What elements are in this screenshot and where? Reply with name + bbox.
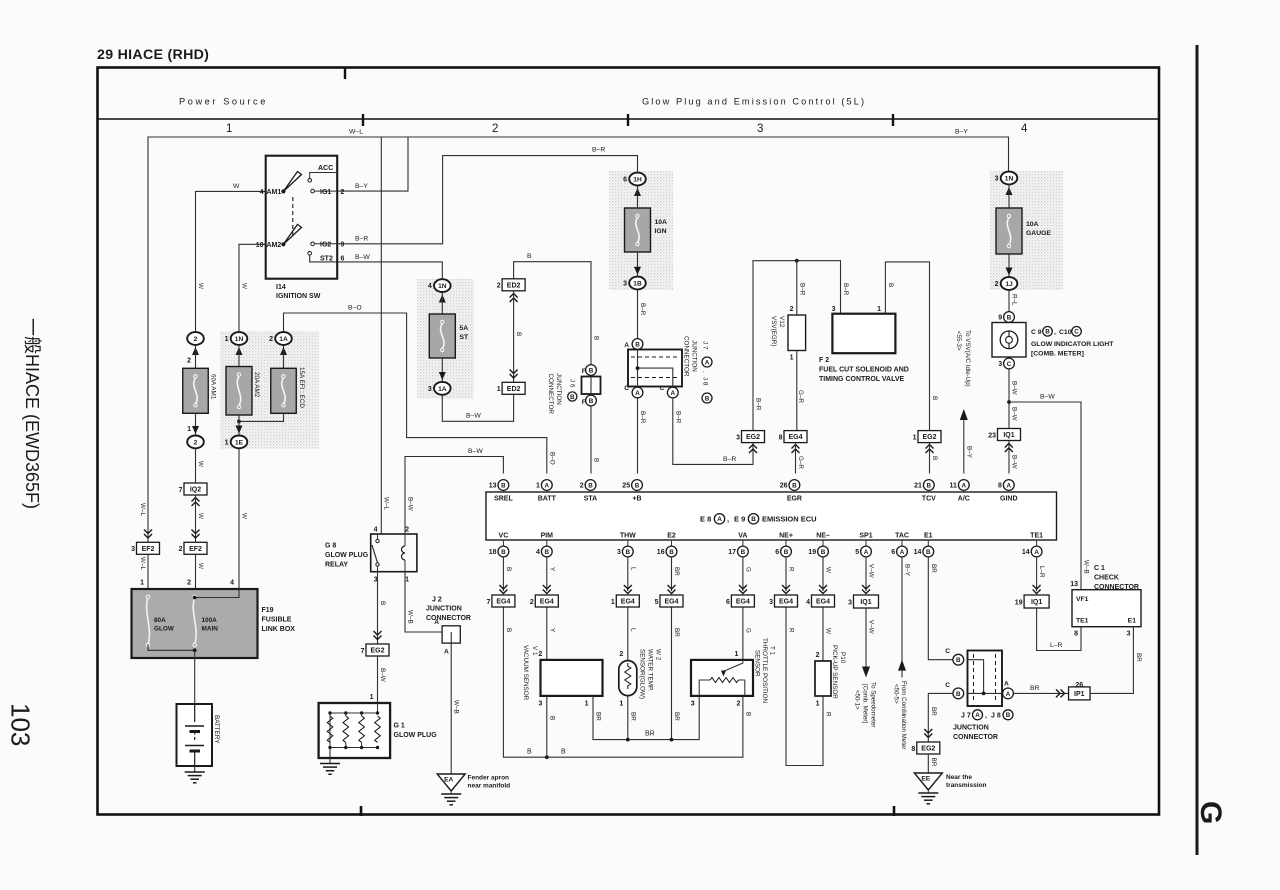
wire 1N to 10A GAUGE: [1008, 185, 1010, 208]
junction node in F19 top: [193, 596, 197, 600]
svg-text:15A EFI : ECD: 15A EFI : ECD: [298, 367, 305, 408]
svg-text:2: 2: [816, 652, 820, 659]
svg-text:SENSOR: SENSOR: [754, 650, 761, 677]
connector oval 1J: [1001, 277, 1018, 290]
svg-text:1: 1: [187, 426, 191, 433]
glow plug ground symbol: [320, 763, 340, 765]
connector oval 1B: [629, 277, 646, 290]
svg-text:TE1: TE1: [1076, 618, 1089, 625]
svg-text:A: A: [1006, 691, 1011, 698]
svg-text:IQ1: IQ1: [1031, 599, 1042, 606]
svg-text:IQ2: IQ2: [190, 487, 201, 494]
svg-text:B: B: [1045, 329, 1050, 336]
svg-text:19: 19: [1015, 599, 1023, 606]
svg-text:26: 26: [1075, 682, 1083, 689]
svg-text:Near the: Near the: [946, 774, 972, 781]
shaded block behind 5A ST fuse: [417, 279, 474, 399]
arrow into 10A GAUGE fuse: [1006, 187, 1013, 195]
ECU pin 8 GIND: [1003, 480, 1014, 491]
wire B-O from 15A EFI fuse to ECU BATT: [284, 313, 547, 474]
svg-text:RELAY: RELAY: [325, 562, 348, 569]
svg-text:17: 17: [728, 549, 736, 556]
svg-text:CONNECTOR: CONNECTOR: [1094, 584, 1139, 591]
junction connector J7/J8 lower box: [968, 651, 1003, 707]
svg-text:EG4: EG4: [496, 599, 510, 606]
svg-text:B: B: [561, 749, 566, 756]
svg-text:B: B: [821, 549, 826, 556]
junction node in F19 bottom: [193, 648, 197, 652]
svg-text:BR: BR: [1030, 685, 1040, 692]
svg-text:BATT: BATT: [538, 496, 557, 503]
wire B-Y to VSV A/C idle-up: [963, 419, 965, 474]
svg-text:5: 5: [655, 599, 659, 606]
svg-text:6: 6: [726, 599, 730, 606]
svg-text:B: B: [887, 283, 894, 287]
double chevron above 19 IQ1: [1033, 585, 1041, 594]
svg-text:B: B: [593, 458, 600, 462]
connector 4 EG4: [812, 595, 835, 607]
svg-text:F: F: [582, 399, 586, 406]
arrow into oval 1B: [634, 267, 641, 275]
svg-text:W: W: [197, 563, 204, 569]
svg-text:1: 1: [225, 336, 229, 343]
svg-text:2: 2: [497, 283, 501, 290]
svg-text:1A: 1A: [438, 386, 447, 393]
svg-text:14: 14: [914, 549, 922, 556]
svg-text:2: 2: [405, 527, 409, 534]
svg-text:GLOW PLUG: GLOW PLUG: [325, 552, 369, 559]
svg-text:23: 23: [988, 432, 996, 439]
svg-text:EG4: EG4: [540, 599, 554, 606]
svg-text:B: B: [379, 601, 386, 605]
junction connector J7/J8 lower pin C/B lower: [953, 688, 964, 699]
wire 5A ST to 1A: [441, 358, 443, 381]
battery ground symbol: [185, 771, 205, 773]
svg-text:2: 2: [619, 651, 623, 658]
svg-text:3: 3: [998, 361, 1002, 368]
connector 5 EG4: [660, 595, 683, 607]
arrow into oval 1J: [1006, 268, 1013, 276]
svg-text:B: B: [669, 549, 674, 556]
svg-text:THROTTLE POSITION: THROTTLE POSITION: [761, 638, 768, 704]
svg-text:C: C: [660, 385, 665, 392]
svg-text:W–B: W–B: [1083, 560, 1090, 574]
svg-text:B–R: B–R: [798, 283, 805, 296]
svg-text:+B: +B: [632, 496, 641, 503]
svg-text:W–L: W–L: [349, 129, 363, 136]
svg-text:A: A: [434, 619, 439, 626]
svg-text:2: 2: [736, 701, 740, 708]
svg-text:2: 2: [538, 651, 542, 658]
svg-text:1A: 1A: [279, 336, 288, 343]
ignition switch IG2 contact: [311, 242, 315, 246]
svg-text:SENSOR(GLOW): SENSOR(GLOW): [639, 649, 646, 699]
wire B from vacuum sensor pin3 to B bus: [546, 696, 548, 757]
svg-text:1: 1: [619, 701, 623, 708]
svg-text:W–L: W–L: [139, 557, 146, 570]
wire 1N to 20A AM2 fuse: [238, 346, 240, 367]
double chevron below 1 EG2: [926, 445, 934, 454]
arrow into 5A ST fuse: [439, 295, 446, 303]
svg-text:1N: 1N: [235, 336, 244, 343]
glow plug relay switch: [377, 534, 379, 572]
connector 7 EG4: [492, 595, 515, 607]
shaded block behind 20A/15A fuses: [220, 331, 319, 449]
svg-text:PICK-UP SENSOR: PICK-UP SENSOR: [831, 645, 838, 699]
svg-text:EG4: EG4: [788, 434, 802, 441]
svg-text:B: B: [926, 549, 931, 556]
svg-text:3: 3: [736, 434, 740, 441]
svg-text:E 9: E 9: [734, 515, 745, 524]
svg-text:R: R: [788, 567, 795, 572]
svg-text:2: 2: [187, 358, 191, 365]
ECU pin 21 TCV: [923, 480, 934, 491]
svg-text:AM2: AM2: [267, 242, 282, 249]
wire W from ignition AM2: [239, 244, 266, 331]
column tick 1|2: [362, 114, 364, 126]
svg-text:6: 6: [341, 256, 345, 263]
connector 19 IQ1: [1024, 595, 1049, 608]
junction connector pin C/A right: [667, 387, 678, 398]
svg-text:4: 4: [428, 283, 432, 290]
pick-up sensor P10 body: [815, 661, 831, 696]
wire B-R from 1B to junction connector A: [637, 290, 639, 338]
svg-text:LINK BOX: LINK BOX: [262, 626, 296, 633]
svg-text:TIMING CONTROL VALVE: TIMING CONTROL VALVE: [819, 376, 904, 383]
wire B-W from glow indicator to ECU GIND: [1008, 370, 1010, 474]
svg-text:IG2: IG2: [320, 241, 331, 248]
junction connector J7/J8 box: [628, 350, 682, 387]
svg-text:B: B: [570, 394, 575, 401]
fuel cut solenoid F2 body: [832, 314, 895, 354]
svg-text:JUNCTION: JUNCTION: [555, 373, 562, 405]
svg-text:1E: 1E: [235, 439, 244, 446]
svg-text:1J: 1J: [1005, 281, 1013, 288]
svg-text:EMISSION ECU: EMISSION ECU: [762, 515, 817, 524]
wire B-Y from ECU TAC from combination meter: [901, 557, 903, 678]
svg-text:GAUGE: GAUGE: [1026, 230, 1051, 237]
svg-text:60A AM1: 60A AM1: [210, 374, 217, 400]
double chevron below 2 ED2: [510, 294, 518, 303]
svg-text:BR: BR: [673, 628, 680, 637]
throttle position sensor T1 body: [691, 660, 753, 696]
connector oval 1A of 5A ST: [434, 382, 451, 395]
svg-text:B–W: B–W: [355, 254, 370, 261]
wire R from ECU NE+ to pick-up sensor: [786, 557, 823, 766]
svg-text:L: L: [629, 567, 636, 571]
svg-text:<50-5>: <50-5>: [893, 684, 900, 704]
svg-text:B: B: [784, 549, 789, 556]
wire BR from ECU E2 to BR bus: [671, 557, 673, 740]
svg-text:80A: 80A: [154, 617, 166, 624]
wire B-W from ignition ST2 to fuse 1N: [310, 255, 443, 279]
svg-text:B–Y: B–Y: [355, 183, 368, 190]
connector oval 1E: [231, 436, 248, 449]
wire between ED2 connectors: [513, 291, 515, 383]
svg-text:JUNCTION: JUNCTION: [691, 340, 698, 372]
fusible link box F19 body: [132, 589, 258, 658]
svg-text:W–L: W–L: [383, 497, 390, 510]
svg-text:J 2: J 2: [432, 597, 442, 604]
wire W-B from J2 to ground EA: [450, 643, 452, 774]
wire 10A IGN to 1B: [637, 252, 639, 276]
svg-text:TE1: TE1: [1030, 533, 1043, 540]
svg-text:B: B: [501, 549, 506, 556]
svg-text:1: 1: [536, 483, 540, 490]
svg-text:13: 13: [489, 483, 497, 490]
svg-text:TCV: TCV: [922, 496, 936, 503]
double chevron above 3 EG4: [782, 585, 790, 594]
svg-text:B–W: B–W: [1011, 455, 1018, 469]
svg-text:9: 9: [998, 315, 1002, 322]
ECU pin 2 STA: [585, 480, 596, 491]
svg-text:13: 13: [1070, 581, 1078, 588]
double chevron below 8 EG4: [792, 445, 800, 454]
svg-text:C10: C10: [1059, 329, 1072, 336]
svg-text:20A AM2: 20A AM2: [253, 372, 260, 398]
svg-text:1: 1: [877, 306, 881, 313]
svg-text:F19: F19: [262, 607, 274, 614]
ignition switch I14 box: [266, 156, 338, 279]
svg-text:2: 2: [790, 306, 794, 313]
svg-text:,: ,: [727, 515, 729, 524]
battery body: [177, 704, 213, 766]
svg-text:B: B: [505, 628, 512, 632]
svg-text:1: 1: [790, 355, 794, 362]
junction dot B bus: [545, 755, 549, 759]
svg-text:6: 6: [891, 549, 895, 556]
double chevron above 2 EG4: [543, 585, 551, 594]
svg-text:BR: BR: [673, 712, 680, 721]
svg-text:B–R: B–R: [723, 456, 736, 463]
svg-text:1: 1: [140, 580, 144, 587]
svg-text:2: 2: [194, 336, 198, 343]
wire W from ECU NE- to pick-up sensor: [822, 557, 824, 661]
svg-text:BR: BR: [673, 567, 680, 576]
svg-text:26: 26: [780, 483, 788, 490]
junction connector F pin upper: [586, 365, 597, 376]
wire B from 1 EG2 to ECU TCV: [929, 443, 931, 474]
wire W-L / B-Y top bus: [148, 137, 1009, 542]
wire B-R riser from 3 EG2 to solenoid bus: [753, 261, 841, 431]
svg-text:SP1: SP1: [859, 533, 872, 540]
double chevron below 3 EG2: [749, 445, 757, 454]
svg-text:BR: BR: [930, 758, 937, 767]
svg-text:3: 3: [691, 701, 695, 708]
wire V-W from ECU SP1 to speedometer: [865, 557, 867, 667]
svg-text:2: 2: [269, 336, 273, 343]
glow plug G1 box: [319, 703, 391, 758]
svg-text:W: W: [825, 567, 832, 573]
svg-text:8: 8: [911, 746, 915, 753]
svg-text:Glow Plug and Emission Control: Glow Plug and Emission Control (5L): [642, 97, 866, 107]
svg-text:STA: STA: [584, 496, 597, 503]
svg-text:From Combination Meter: From Combination Meter: [900, 681, 907, 749]
svg-text:B: B: [744, 712, 751, 716]
svg-text:1H: 1H: [633, 177, 642, 184]
svg-text:V12: V12: [778, 316, 785, 328]
svg-text:C 9: C 9: [1031, 329, 1042, 336]
connector 1 ED2: [502, 382, 525, 394]
fuse 5A ST: [429, 314, 455, 358]
svg-text:G: G: [744, 628, 751, 633]
wire W-L to glow plug relay: [380, 137, 382, 534]
svg-text:3: 3: [131, 546, 135, 553]
svg-text:10A: 10A: [1026, 221, 1039, 228]
svg-text:J 8: J 8: [991, 713, 1001, 720]
svg-text:10A: 10A: [655, 219, 668, 226]
svg-text:B–W: B–W: [1040, 394, 1055, 401]
svg-text:W–L: W–L: [139, 503, 146, 516]
connector 3 EG2: [742, 431, 765, 443]
connector 7 EG2: [366, 644, 389, 656]
svg-text:J 7: J 7: [961, 713, 971, 720]
svg-text:TAC: TAC: [895, 533, 909, 540]
svg-text:B: B: [956, 691, 961, 698]
svg-text:EG4: EG4: [736, 599, 750, 606]
svg-text:[COMB. METER]: [COMB. METER]: [1031, 351, 1084, 358]
svg-text:W: W: [825, 628, 832, 634]
junction connector F box: [582, 377, 601, 395]
svg-text:,: ,: [1054, 329, 1056, 336]
svg-text:B–W: B–W: [468, 448, 483, 455]
double chevron above 5 EG4: [668, 585, 676, 594]
ignition switch AM1 pole: [281, 189, 285, 193]
svg-text:GLOW: GLOW: [154, 626, 175, 633]
svg-text:B: B: [588, 482, 593, 489]
fuse 20A AM2: [226, 367, 252, 416]
junction of 20A and 15A fuse outputs: [237, 420, 241, 424]
double chevron below IQ2: [192, 498, 200, 507]
arrow into oval 1E: [236, 426, 243, 434]
svg-text:A: A: [671, 390, 676, 397]
double chevron above 3 IQ1: [862, 585, 870, 594]
svg-text:R: R: [788, 628, 795, 633]
wire W from ignition AM1: [196, 191, 266, 331]
throttle position sensor potentiometer: [722, 660, 743, 672]
svg-text:1: 1: [225, 440, 229, 447]
svg-text:transmission: transmission: [946, 782, 986, 789]
svg-text:25: 25: [622, 483, 630, 490]
svg-text:B–R: B–R: [674, 411, 681, 424]
wire B from relay pin3 to 7 EG2: [377, 572, 379, 644]
glow indicator pin 9/B: [1004, 312, 1015, 323]
svg-text:一般HIACE (EWD365F): 一般HIACE (EWD365F): [22, 318, 42, 509]
svg-text:BR: BR: [930, 707, 937, 716]
junction connector J7/J8 lower pin A/A: [1003, 688, 1014, 699]
water temp sensor W2 body: [619, 661, 637, 696]
ignition switch ST2 contact: [308, 252, 312, 256]
svg-text:B: B: [527, 749, 532, 756]
svg-text:8: 8: [998, 483, 1002, 490]
svg-text:Power Source: Power Source: [179, 97, 268, 107]
svg-text:29 HIACE (RHD): 29 HIACE (RHD): [97, 47, 209, 63]
svg-text:B: B: [589, 398, 594, 405]
svg-text:W: W: [240, 283, 247, 289]
svg-text:SREL: SREL: [494, 496, 513, 503]
wire G from ECU VA to throttle sensor: [742, 557, 744, 660]
svg-text:EF2: EF2: [142, 546, 155, 553]
wire IQ2 to EF2: [195, 495, 197, 543]
wire Y from ECU PIM to vacuum sensor: [546, 557, 548, 660]
svg-text:5A: 5A: [460, 325, 469, 332]
junction dot glow indicator B-W: [1007, 400, 1011, 404]
svg-text:A: A: [717, 516, 722, 523]
svg-text:19: 19: [808, 549, 816, 556]
svg-text:B: B: [626, 549, 631, 556]
svg-text:9: 9: [341, 241, 345, 248]
svg-text:18: 18: [489, 549, 497, 556]
glow plug relay G8 box: [371, 534, 417, 572]
svg-text:E2: E2: [667, 533, 676, 540]
svg-text:A/C: A/C: [958, 496, 970, 503]
svg-text:B–Y: B–Y: [955, 129, 968, 136]
glow plug ground wire: [329, 748, 331, 764]
svg-text:V 1: V 1: [531, 646, 538, 656]
wire B-W from 7 EG2 to glow plug G1: [377, 656, 379, 703]
svg-text:B: B: [792, 482, 797, 489]
svg-text:J 6: J 6: [569, 379, 576, 388]
svg-text:THW: THW: [620, 533, 636, 540]
ECU pin 25 +B: [632, 480, 643, 491]
fusible link 100A MAIN element: [193, 597, 196, 645]
shaded block behind 10A GAUGE fuse: [990, 171, 1063, 290]
svg-text:1N: 1N: [438, 283, 447, 290]
svg-text:<50-1>: <50-1>: [854, 690, 861, 710]
double chevron above 1 EG4: [624, 585, 632, 594]
svg-text:W 2: W 2: [655, 649, 662, 661]
svg-text:ED2: ED2: [507, 386, 521, 393]
connector oval 1N (20A AM2 top): [231, 332, 248, 345]
arrow into oval 1A: [280, 347, 287, 355]
svg-text:F 2: F 2: [819, 357, 829, 364]
shaded block behind 10A IGN fuse: [609, 171, 673, 290]
connector oval 2 upper (60A AM1 top): [187, 332, 204, 345]
wire inside F19 from pin 4 to main node: [195, 589, 239, 598]
svg-text:B: B: [589, 367, 594, 374]
svg-text:E 8: E 8: [700, 515, 711, 524]
emission ECU box: [486, 492, 1057, 540]
svg-text:3: 3: [617, 549, 621, 556]
wire B-W from relay pin2 to ECU SREL: [405, 457, 503, 535]
wire inside F19 bottom bus: [148, 645, 195, 650]
wire BR from IP1 to check connector E1: [1090, 627, 1133, 694]
svg-text:W: W: [240, 513, 247, 519]
svg-text:A: A: [962, 482, 967, 489]
wire 15A fuse output to 1E junction: [239, 413, 284, 421]
junction connector pin C/A left: [632, 387, 643, 398]
svg-text:B–W: B–W: [1011, 381, 1018, 395]
svg-text:V–W: V–W: [868, 564, 875, 578]
ground EE near transmission: [914, 773, 942, 790]
wire 10A GAUGE to 1J: [1008, 254, 1010, 277]
junction dot BR bus right: [670, 738, 674, 742]
glow indicator light body: [992, 323, 1026, 358]
connector 8 EG4: [784, 431, 807, 443]
connector 6 EG4: [731, 595, 754, 607]
svg-text:AM1: AM1: [267, 189, 282, 196]
connector 8 EG2: [917, 742, 940, 754]
wire B from fuel cut solenoid pin1 to 1 EG2: [885, 262, 929, 431]
svg-text:1: 1: [913, 434, 917, 441]
svg-text:EG2: EG2: [922, 434, 936, 441]
svg-text:GLOW INDICATOR LIGHT: GLOW INDICATOR LIGHT: [1031, 341, 1114, 348]
wire BR from junction connector to IP1: [1014, 692, 1069, 694]
battery plates: [194, 704, 196, 722]
fuse 10A GAUGE: [996, 208, 1022, 254]
svg-text:B–W: B–W: [1011, 407, 1018, 421]
wire G-R from V12 to 8 EG4: [796, 351, 798, 431]
